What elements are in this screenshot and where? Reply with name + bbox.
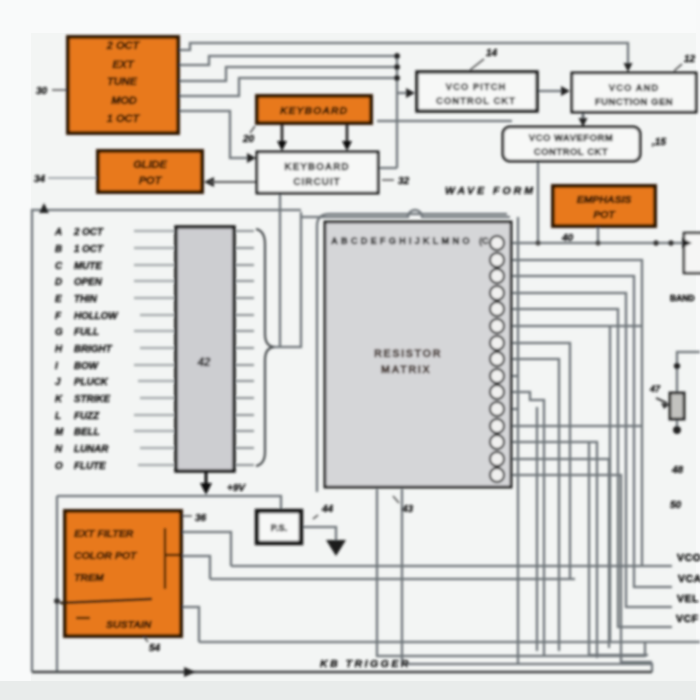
- svg-text:48: 48: [671, 465, 684, 476]
- svg-text:36: 36: [195, 513, 207, 524]
- wire: left inner vertical: [56, 496, 58, 672]
- wire: matrix c9 jog: [506, 375, 518, 377]
- wire: matrix c11: [506, 408, 518, 410]
- svg-text:P.S.: P.S.: [271, 523, 288, 534]
- svg-text:44: 44: [321, 504, 334, 515]
- svg-text:TREM: TREM: [74, 572, 104, 584]
- svg-text:D: D: [55, 277, 62, 288]
- svg-text:VCO WAVEFORM: VCO WAVEFORM: [529, 133, 613, 144]
- wire: keyboard circuit to vco pitch: [378, 167, 397, 169]
- svg-text:K: K: [55, 394, 63, 405]
- wire: matrix right outer rail: [517, 217, 519, 664]
- arrows on top bus: [394, 53, 400, 59]
- svg-text:I: I: [55, 361, 58, 372]
- svg-text:FULL: FULL: [74, 327, 99, 338]
- svg-text:VCO F: VCO F: [677, 552, 700, 564]
- wire: matrix c2: [506, 260, 642, 566]
- svg-text:40: 40: [561, 233, 574, 244]
- inner bracket marks in ext filter box: [165, 528, 180, 589]
- svg-text:EXT: EXT: [112, 59, 135, 71]
- svg-text:43: 43: [401, 504, 414, 515]
- svg-text:BAND: BAND: [670, 293, 695, 303]
- up arrow top of left rail: [39, 203, 49, 213]
- sustain switch lever: [60, 599, 152, 603]
- block: glide pot (34): [98, 151, 202, 192]
- junction dot left rail: [54, 598, 60, 604]
- wire: function gen down to waveform ctl: [582, 112, 585, 123]
- svg-text:LUNAR: LUNAR: [74, 444, 109, 455]
- svg-text:BRIGHT: BRIGHT: [74, 344, 113, 355]
- svg-text:2 OCT: 2 OCT: [106, 40, 141, 52]
- wire: long rail to VCO label: [231, 565, 672, 567]
- right light strip: [696, 0, 700, 700]
- svg-text:VCO PITCH: VCO PITCH: [446, 82, 507, 93]
- right edge partial box: [684, 233, 700, 273]
- svg-text:O: O: [55, 461, 63, 472]
- svg-text:CONTROL CKT: CONTROL CKT: [534, 147, 608, 158]
- wire: matrix c4 to VEL label: [506, 293, 672, 607]
- arrow into vco func left: [561, 86, 570, 96]
- svg-text:GLIDE: GLIDE: [133, 159, 167, 171]
- wire: matrix c5 to VCF label: [506, 309, 672, 627]
- svg-text:H: H: [55, 344, 63, 355]
- svg-text:RESISTOR: RESISTOR: [374, 348, 442, 360]
- wire: hop rail to matrix right rail: [301, 210, 510, 217]
- svg-text:1 OCT: 1 OCT: [74, 244, 104, 255]
- block: vco and function gen: [572, 73, 696, 112]
- svg-text:ABCDEFGHIJKLMNO: ABCDEFGHIJKLMNO: [331, 236, 473, 247]
- wire: box30 exit 5 to keyboard circuit: [178, 111, 250, 158]
- svg-text:OPEN: OPEN: [74, 277, 103, 288]
- arrow into vco func top: [624, 63, 633, 72]
- wire: box30 exit 1 to top rail: [178, 43, 628, 68]
- wire: rail y579: [210, 578, 575, 580]
- wire: ext filter out 2: [181, 556, 210, 579]
- svg-text:G: G: [55, 327, 63, 338]
- svg-text:47: 47: [649, 384, 661, 394]
- bottom light strip: [0, 681, 700, 700]
- svg-text:STRIKE: STRIKE: [74, 394, 110, 405]
- svg-text:MOD: MOD: [111, 95, 137, 107]
- wire: bus down into vco pitch: [397, 56, 407, 168]
- svg-text:34: 34: [34, 174, 46, 185]
- wire: left feedback rail: [32, 210, 301, 672]
- top light strip: [0, 0, 700, 33]
- svg-text:MATRIX: MATRIX: [381, 364, 431, 376]
- leader lines preset list: [134, 231, 174, 465]
- svg-text:+9V: +9V: [227, 483, 246, 494]
- brace right of 42: [256, 229, 274, 466]
- wire: rail y642: [199, 641, 700, 643]
- svg-text:TUNE: TUNE: [107, 76, 138, 88]
- svg-text:KB TRIGGER: KB TRIGGER: [320, 658, 411, 670]
- wire: matrix c1 rail to right edge: [506, 242, 688, 244]
- left light strip: [0, 0, 31, 700]
- wire: matrix outer rounded rail: [317, 214, 507, 492]
- junction dots on c1 rail: [535, 240, 540, 245]
- svg-text:20: 20: [242, 134, 255, 145]
- wire: KB trigger line: [32, 671, 652, 674]
- svg-text:SUSTAIN: SUSTAIN: [106, 619, 152, 631]
- svg-text:A: A: [54, 227, 62, 238]
- svg-text:50: 50: [670, 500, 682, 511]
- svg-text:VCF B: VCF B: [676, 613, 700, 625]
- svg-text:POT: POT: [139, 175, 163, 187]
- block: resistor matrix: [325, 222, 511, 487]
- svg-text:KEYBOARD: KEYBOARD: [284, 162, 349, 173]
- wire: box30 exit 3: [178, 67, 395, 81]
- wire: matrix c7: [506, 343, 570, 579]
- svg-text:BELL: BELL: [74, 427, 100, 438]
- svg-text:42: 42: [197, 357, 211, 369]
- svg-text:N: N: [55, 444, 63, 455]
- svg-text:EXT FILTER: EXT FILTER: [74, 528, 134, 540]
- wire: box30 exit 2: [178, 56, 395, 65]
- svg-text:M: M: [55, 427, 64, 438]
- svg-text:VCO AND: VCO AND: [609, 83, 659, 94]
- matrix pin circles: [490, 236, 504, 482]
- arrow into kb circuit left: [247, 153, 256, 163]
- wire: matrix c3 to VC label: [506, 276, 672, 587]
- wire: matrix c14: [506, 459, 609, 648]
- arrows keyboard to kb circuit: [281, 123, 284, 145]
- wire: matrix c15: [506, 475, 652, 662]
- svg-text:THIN: THIN: [74, 294, 98, 305]
- svg-text:32: 32: [398, 176, 410, 187]
- svg-text:1 OCT: 1 OCT: [107, 113, 141, 125]
- svg-text:(C: (C: [479, 236, 489, 246]
- wire: brace collector riser: [274, 212, 301, 347]
- svg-text:,15: ,15: [651, 137, 666, 148]
- svg-text:2 OCT: 2 OCT: [73, 227, 104, 238]
- svg-text:FUZZ: FUZZ: [74, 411, 100, 422]
- arrow glide pot (pointing left): [204, 177, 214, 187]
- arrow into right edge box: [682, 238, 692, 248]
- svg-text:FUNCTION GEN: FUNCTION GEN: [595, 97, 673, 108]
- wire: vertical from kb circuit bottom: [279, 194, 281, 347]
- svg-text:WAVE FORM: WAVE FORM: [445, 185, 536, 197]
- block: keyboard (orange): [257, 96, 371, 123]
- preset list A-O: [54, 227, 118, 472]
- svg-text:C: C: [55, 261, 63, 272]
- svg-text:KEYBOARD: KEYBOARD: [280, 105, 348, 117]
- svg-text:B: B: [55, 244, 62, 255]
- svg-text:POT: POT: [593, 209, 616, 221]
- svg-text:E: E: [55, 294, 62, 305]
- svg-text:PLUCK: PLUCK: [74, 377, 109, 388]
- wire: matrix bottom exit 2: [402, 489, 652, 672]
- wire: box30 exit 4: [178, 78, 395, 96]
- block: PS: [257, 511, 301, 543]
- wire: ext filter out 1: [181, 532, 231, 566]
- wire: matrix c10: [506, 392, 544, 656]
- arrow into waveform ctl top: [579, 118, 588, 127]
- svg-text:L: L: [55, 411, 61, 422]
- wire: matrix c13: [506, 442, 597, 658]
- potentiometer 47: [649, 363, 684, 434]
- svg-text:MUTE: MUTE: [74, 261, 102, 272]
- wire: pot bottom lead: [676, 419, 678, 427]
- block: vco pitch control ckt: [417, 72, 537, 111]
- wire: pot feed top right: [677, 352, 700, 393]
- wire: ext filter out 3 (sustain): [181, 607, 199, 642]
- wire: waveform ctl down to matrix rail: [537, 161, 539, 243]
- block: vco waveform control ckt: [503, 127, 640, 161]
- block: preset switch 42: [176, 227, 234, 471]
- wire: emphasis pot down to rail: [597, 226, 599, 243]
- PS big down arrow: [326, 540, 346, 556]
- wire: vco pitch to vco function gen: [536, 90, 564, 92]
- svg-text:VCA C: VCA C: [678, 573, 700, 585]
- svg-text:54: 54: [149, 643, 161, 654]
- svg-text:VEL T: VEL T: [677, 593, 700, 605]
- wire: +9V rail: [57, 496, 281, 510]
- block: emphasis pot: [553, 186, 655, 226]
- svg-text:30: 30: [36, 86, 48, 97]
- tick lines right of 42: [236, 231, 254, 465]
- block: 2OCT/EXT/TUNE/MOD/1OCT selector (30): [68, 37, 178, 133]
- svg-text:CONTROL CKT: CONTROL CKT: [436, 96, 516, 107]
- wire: matrix bottom exit 1: [377, 489, 645, 656]
- wire: glide to kb circuit: [210, 181, 257, 183]
- block: ext filter / color pot / trem / sustain: [65, 511, 181, 636]
- +9V down arrow under box42: [205, 471, 208, 484]
- wire: matrix c8: [506, 359, 559, 651]
- wire: stray rail above matrix: [377, 120, 512, 122]
- KB trigger arrow: [184, 667, 196, 677]
- arrow into vco pitch: [406, 88, 415, 98]
- wire: PS output: [301, 527, 336, 541]
- svg-text:EMPHASIS: EMPHASIS: [577, 194, 632, 206]
- block: keyboard circuit: [257, 152, 378, 193]
- svg-text:12: 12: [684, 54, 696, 65]
- svg-text:COLOR POT: COLOR POT: [74, 550, 138, 562]
- svg-text:14: 14: [486, 48, 498, 59]
- svg-text:FLUTE: FLUTE: [74, 461, 106, 472]
- wire: matrix c6: [506, 325, 642, 327]
- svg-text:CIRCUIT: CIRCUIT: [293, 177, 341, 188]
- svg-text:HOLLOW: HOLLOW: [74, 311, 118, 322]
- svg-text:BOW: BOW: [74, 361, 99, 372]
- wire: matrix c12: [506, 425, 642, 427]
- svg-text:F: F: [55, 311, 62, 322]
- svg-text:J: J: [55, 377, 61, 388]
